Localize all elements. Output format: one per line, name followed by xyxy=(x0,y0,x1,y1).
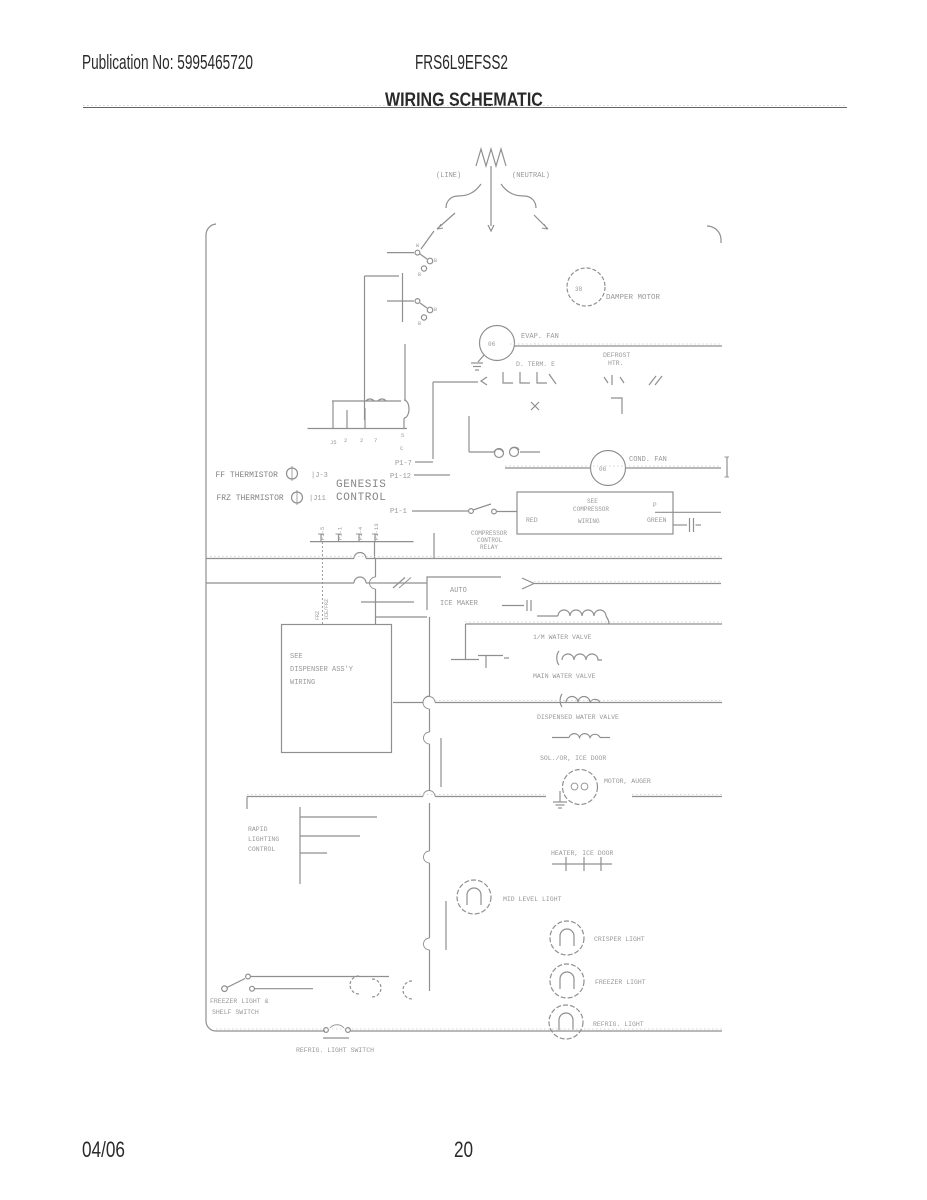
svg-text:RED: RED xyxy=(526,517,538,524)
svg-text:38: 38 xyxy=(575,286,583,293)
svg-text:DISPENSED WATER VALVE: DISPENSED WATER VALVE xyxy=(537,714,619,721)
svg-text:1/M WATER VALVE: 1/M WATER VALVE xyxy=(533,634,592,641)
svg-text:P1-7: P1-7 xyxy=(395,460,412,468)
svg-text:SEE: SEE xyxy=(587,498,598,505)
svg-text:ICE/FRZ: ICE/FRZ xyxy=(324,599,330,620)
svg-text:REFRIG. LIGHT: REFRIG. LIGHT xyxy=(593,1021,644,1028)
svg-text:COND. FAN: COND. FAN xyxy=(629,456,667,464)
svg-text:HTR.: HTR. xyxy=(608,360,624,367)
svg-text:SOL./OR, ICE DOOR: SOL./OR, ICE DOOR xyxy=(540,755,606,762)
svg-text:7: 7 xyxy=(374,437,377,444)
svg-text:B: B xyxy=(418,321,421,327)
svg-text:P: P xyxy=(653,502,657,509)
svg-text:SEE: SEE xyxy=(290,653,303,661)
svg-text:EVAP. FAN: EVAP. FAN xyxy=(521,333,559,341)
svg-text:B: B xyxy=(434,258,437,264)
svg-text:P1-1: P1-1 xyxy=(337,526,344,540)
svg-text:RELAY: RELAY xyxy=(480,544,498,551)
svg-text:W: W xyxy=(416,243,419,249)
svg-text:GENESIS: GENESIS xyxy=(336,479,386,491)
svg-text:C: C xyxy=(400,445,404,452)
svg-text:HEATER, ICE DOOR: HEATER, ICE DOOR xyxy=(551,850,614,857)
svg-text:P1-1: P1-1 xyxy=(390,508,407,516)
svg-text:DEFROST: DEFROST xyxy=(603,352,630,359)
svg-text:SHELF SWITCH: SHELF SWITCH xyxy=(212,1009,259,1016)
svg-text:ICE MAKER: ICE MAKER xyxy=(440,600,479,608)
svg-text:COMPRESSOR: COMPRESSOR xyxy=(573,506,609,513)
svg-text:FF THERMISTOR: FF THERMISTOR xyxy=(216,471,279,480)
svg-text:DAMPER MOTOR: DAMPER MOTOR xyxy=(606,294,661,302)
svg-text:CONTROL: CONTROL xyxy=(336,492,386,504)
svg-text:(NEUTRAL): (NEUTRAL) xyxy=(512,172,550,180)
svg-text:COMPRESSOR: COMPRESSOR xyxy=(471,530,507,537)
svg-text:CONTROL: CONTROL xyxy=(248,846,275,853)
svg-text:WIRING: WIRING xyxy=(290,679,315,687)
svg-text:2: 2 xyxy=(344,437,347,444)
svg-text:MOTOR, AUGER: MOTOR, AUGER xyxy=(604,778,651,785)
svg-text:MAIN WATER VALVE: MAIN WATER VALVE xyxy=(533,673,596,680)
svg-text:FREEZER LIGHT: FREEZER LIGHT xyxy=(595,979,646,986)
svg-text:P1-12: P1-12 xyxy=(390,473,411,481)
svg-text:J5: J5 xyxy=(330,439,337,446)
svg-text:P1-4: P1-4 xyxy=(357,526,364,540)
svg-text:2: 2 xyxy=(360,437,363,444)
svg-text:WIRING: WIRING xyxy=(578,518,600,525)
svg-text:B: B xyxy=(434,307,437,313)
svg-text:AUTO: AUTO xyxy=(450,587,467,595)
svg-text:CONTROL: CONTROL xyxy=(477,537,503,544)
svg-text:|J11: |J11 xyxy=(309,495,326,503)
svg-text:GREEN: GREEN xyxy=(647,517,667,524)
svg-text:LIGHTING: LIGHTING xyxy=(248,836,279,843)
svg-text:FREEZER LIGHT &: FREEZER LIGHT & xyxy=(210,998,269,1005)
svg-text:FRZ: FRZ xyxy=(315,611,321,620)
svg-text:P1-5: P1-5 xyxy=(319,527,326,540)
svg-text:RAPID: RAPID xyxy=(248,826,268,833)
svg-text:MID LEVEL LIGHT: MID LEVEL LIGHT xyxy=(503,896,562,903)
svg-text:|J-3: |J-3 xyxy=(311,472,328,480)
svg-text:06: 06 xyxy=(599,466,607,473)
svg-text:(LINE): (LINE) xyxy=(436,172,461,180)
svg-text:B: B xyxy=(418,272,421,278)
svg-text:06: 06 xyxy=(488,341,496,348)
svg-text:5: 5 xyxy=(401,432,404,439)
svg-text:DISPENSER ASS'Y: DISPENSER ASS'Y xyxy=(290,666,354,674)
svg-text:CRISPER LIGHT: CRISPER LIGHT xyxy=(594,936,645,943)
svg-text:D. TERM. E: D. TERM. E xyxy=(516,361,555,368)
svg-text:FRZ THERMISTOR: FRZ THERMISTOR xyxy=(217,494,284,503)
svg-text:REFRIG. LIGHT SWITCH: REFRIG. LIGHT SWITCH xyxy=(296,1047,374,1054)
svg-text:P1-13: P1-13 xyxy=(373,523,380,540)
